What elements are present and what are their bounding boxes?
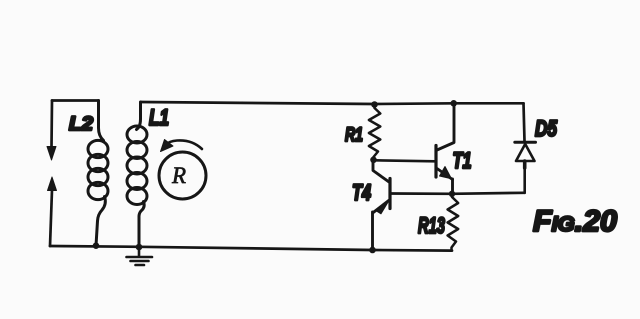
rotation arrow over rotor <box>166 140 202 149</box>
coil L2 <box>88 101 108 246</box>
svg-text:T1: T1 <box>453 148 472 173</box>
wire top rail <box>141 102 524 104</box>
svg-text:R13: R13 <box>418 213 445 238</box>
node junction dot L2-bottom <box>93 242 100 249</box>
rotor circle R <box>159 152 206 199</box>
wire left vertical upper segment <box>50 101 53 148</box>
svg-text:T4: T4 <box>352 180 371 205</box>
svg-text:L2: L2 <box>69 113 93 135</box>
wire left vertical lower segment <box>50 190 52 246</box>
svg-text:L1: L1 <box>149 105 169 130</box>
transistor T4 <box>373 160 391 250</box>
arrowhead pointing down (left wire) <box>47 147 56 161</box>
svg-text:R: R <box>171 163 186 188</box>
node junction dot T4-emitter/bottom rail <box>369 247 376 254</box>
wire R1-bottom to T1 base <box>374 160 435 161</box>
resistor R1 <box>369 105 380 157</box>
node junction dot L1-bottom (ground node) <box>136 244 143 251</box>
ground <box>127 247 153 265</box>
svg-text:R1: R1 <box>345 124 363 146</box>
wire top-left horizontal (L2 loop top) <box>52 99 99 102</box>
transistor T1 <box>436 104 454 194</box>
node junction dot R1-bottom <box>370 157 377 164</box>
node junction dot T1-collector/top rail <box>450 100 457 107</box>
arrowhead pointing up (left wire) <box>48 177 57 191</box>
wire D5 return to node <box>452 193 525 194</box>
node junction dot T1-emitter/R13/D5 <box>449 191 455 197</box>
node junction dot R1-top <box>371 101 378 108</box>
diode D5 <box>515 142 536 193</box>
wire top rail to D5 and down <box>524 103 525 141</box>
svg-text:D5: D5 <box>535 116 558 141</box>
wire T4 base to node (y=193.5) <box>391 192 452 195</box>
coil L1 <box>127 102 147 247</box>
svg-text:FIG.20: FIG.20 <box>533 205 617 238</box>
wire bottom rail <box>50 246 452 251</box>
resistor R13 <box>448 194 459 251</box>
